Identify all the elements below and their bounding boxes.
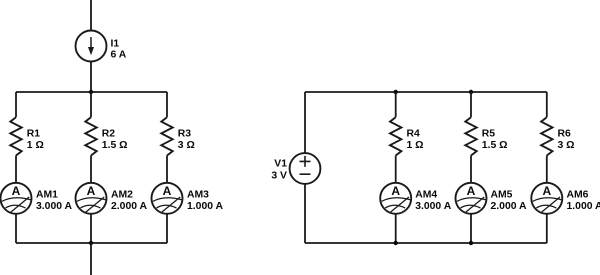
svg-text:1 Ω: 1 Ω: [407, 140, 424, 151]
svg-text:AM5: AM5: [491, 189, 513, 200]
svg-text:V1: V1: [274, 159, 287, 170]
svg-text:AM3: AM3: [187, 189, 209, 200]
ammeter AM5: [456, 183, 487, 214]
label R5 1.5 ohm: [482, 128, 508, 151]
wire right top rail: [305, 91, 547, 93]
node right top rail junction at R4: [394, 90, 398, 94]
label R4 1 ohm: [407, 128, 424, 151]
svg-text:3 Ω: 3 Ω: [558, 140, 575, 151]
wire I1 bottom to top rail: [90, 62, 92, 93]
label V1 3 V: [271, 159, 287, 182]
svg-text:3 Ω: 3 Ω: [178, 140, 195, 151]
wire branch3 mid: [166, 156, 168, 183]
ammeter AM6: [531, 183, 562, 214]
svg-text:1.000 A: 1.000 A: [567, 201, 600, 212]
svg-text:3.000 A: 3.000 A: [36, 201, 73, 212]
svg-text:R4: R4: [407, 128, 421, 139]
wire branch R4 top: [395, 92, 397, 117]
resistor R1: [10, 117, 21, 155]
ammeter AM2: [76, 183, 107, 214]
wire branch1 top: [15, 92, 17, 117]
svg-text:R1: R1: [27, 128, 41, 139]
wire branch2 bottom: [90, 214, 92, 243]
resistor R5: [465, 117, 476, 155]
svg-text:6 A: 6 A: [111, 50, 127, 61]
svg-text:2.000 A: 2.000 A: [491, 201, 528, 212]
svg-text:1.000 A: 1.000 A: [187, 201, 224, 212]
wire left bottom rail: [16, 242, 167, 244]
svg-text:AM2: AM2: [111, 189, 133, 200]
wire branch R4 bottom: [395, 214, 397, 243]
svg-text:R3: R3: [178, 128, 192, 139]
label R3 3 ohm: [178, 128, 195, 151]
svg-text:R6: R6: [558, 128, 572, 139]
svg-text:1 Ω: 1 Ω: [27, 140, 44, 151]
node right bottom rail junction at R4: [394, 241, 398, 245]
label R1 1 ohm: [27, 128, 44, 151]
wire V1 bottom: [304, 184, 306, 243]
voltage source V1: [290, 153, 321, 184]
wire left top rail: [16, 91, 167, 93]
resistor R3: [161, 117, 172, 155]
wire branch2 top: [90, 92, 92, 117]
label R2 1.5 ohm: [102, 128, 128, 151]
svg-text:I1: I1: [111, 38, 120, 49]
wire right bottom rail: [305, 242, 547, 244]
ammeter AM1: [1, 183, 32, 214]
label R6 3 ohm: [558, 128, 575, 151]
wire branch1 mid: [15, 156, 17, 183]
wire branch R5 bottom: [470, 214, 472, 243]
svg-text:3.000 A: 3.000 A: [415, 201, 452, 212]
label AM1 3.000 A: [36, 189, 73, 212]
wire branch1 bottom: [15, 214, 17, 243]
svg-text:1.5 Ω: 1.5 Ω: [102, 140, 128, 151]
node bottom rail junction: [89, 241, 93, 245]
wire branch3 bottom: [166, 214, 168, 243]
svg-text:AM1: AM1: [36, 189, 58, 200]
svg-text:3 V: 3 V: [271, 170, 287, 181]
node top rail junction: [89, 90, 93, 94]
wire top feed into I1: [90, 0, 92, 31]
label AM2 2.000 A: [111, 189, 148, 212]
current source I1: [76, 31, 107, 62]
label AM3 1.000 A: [187, 189, 224, 212]
wire branch R6 top: [546, 92, 548, 117]
label I1 6 A: [111, 38, 127, 60]
wire bottom stub: [90, 243, 92, 275]
wire branch R5 mid: [470, 156, 472, 183]
ammeter AM3: [152, 183, 183, 214]
svg-text:1.5 Ω: 1.5 Ω: [482, 140, 508, 151]
wire branch R4 mid: [395, 156, 397, 183]
svg-text:R2: R2: [102, 128, 116, 139]
svg-text:2.000 A: 2.000 A: [111, 201, 148, 212]
resistor R4: [390, 117, 401, 155]
label AM5 2.000 A: [491, 189, 528, 212]
wire branch R5 top: [470, 92, 472, 117]
node right top rail junction at R5: [469, 90, 473, 94]
node right bottom rail junction at R5: [469, 241, 473, 245]
resistor R6: [541, 117, 552, 155]
wire branch R6 mid: [546, 156, 548, 183]
wire V1 top: [304, 92, 306, 153]
resistor R2: [85, 117, 96, 155]
svg-text:AM4: AM4: [415, 189, 437, 200]
svg-text:AM6: AM6: [567, 189, 589, 200]
wire branch R6 bottom: [546, 214, 548, 243]
wire branch3 top: [166, 92, 168, 117]
svg-text:R5: R5: [482, 128, 496, 139]
ammeter AM4: [380, 183, 411, 214]
label AM6 1.000 A: [567, 189, 600, 212]
label AM4 3.000 A: [415, 189, 452, 212]
wire branch2 mid: [90, 156, 92, 183]
